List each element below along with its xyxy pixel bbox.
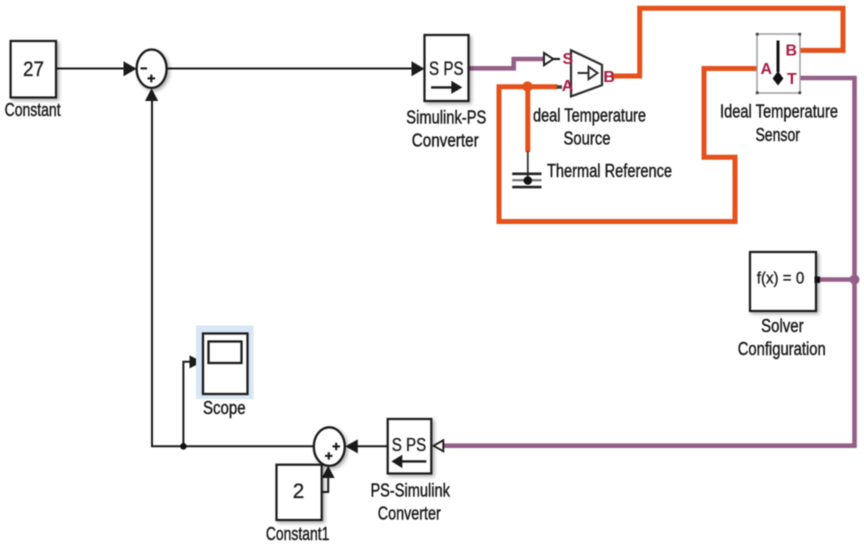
svg-text:B: B [786, 42, 798, 59]
svg-text:Configuration: Configuration [738, 339, 826, 359]
svg-text:T: T [787, 71, 797, 88]
svg-text:Scope: Scope [203, 398, 246, 418]
svg-text:2: 2 [293, 479, 305, 503]
svg-text:A: A [761, 61, 773, 78]
svg-text:deal Temperature: deal Temperature [533, 105, 646, 125]
svg-text:Thermal Reference: Thermal Reference [547, 161, 672, 181]
svg-text:Simulink-PS: Simulink-PS [406, 108, 486, 128]
svg-text:Source: Source [564, 128, 611, 148]
svg-text:A: A [562, 78, 574, 95]
svg-text:Sensor: Sensor [755, 125, 800, 145]
svg-text:B: B [603, 69, 615, 86]
svg-text:PS-Simulink: PS-Simulink [370, 481, 450, 501]
svg-text:S: S [563, 51, 574, 68]
svg-text:Solver: Solver [761, 316, 804, 336]
svg-text:f(x) = 0: f(x) = 0 [757, 270, 805, 288]
svg-text:Converter: Converter [412, 131, 479, 151]
svg-text:S PS: S PS [429, 59, 464, 80]
svg-text:27: 27 [23, 57, 44, 81]
svg-text:S PS: S PS [392, 435, 427, 455]
svg-text:Ideal Temperature: Ideal Temperature [720, 102, 838, 122]
svg-text:Constant: Constant [5, 100, 61, 120]
svg-text:Converter: Converter [378, 504, 441, 524]
svg-text:Constant1: Constant1 [266, 524, 330, 544]
